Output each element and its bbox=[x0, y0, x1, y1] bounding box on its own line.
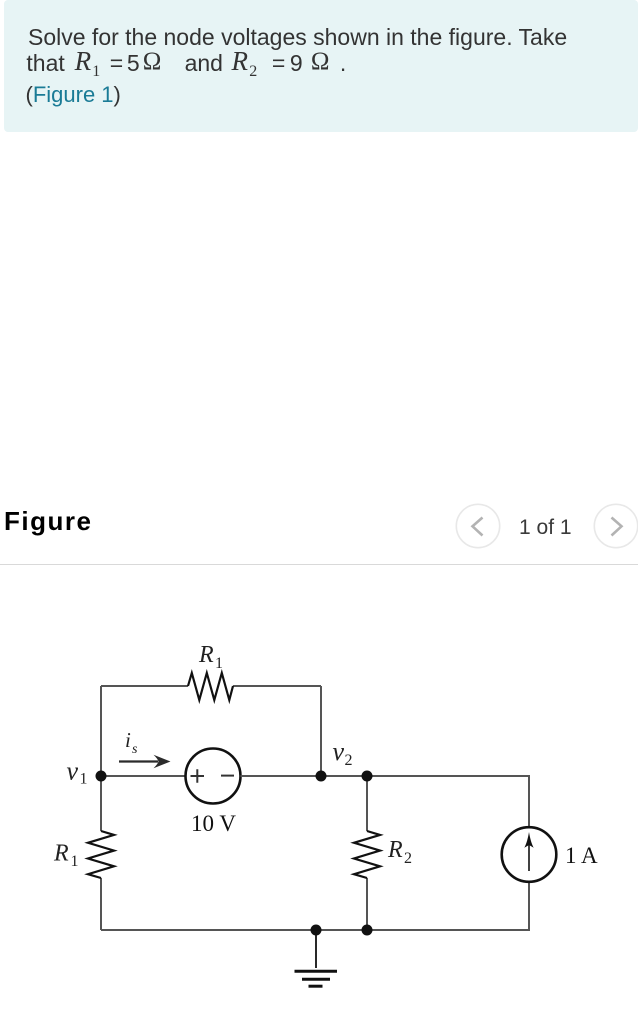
svg-text:10 V: 10 V bbox=[191, 811, 236, 836]
svg-text:2: 2 bbox=[404, 850, 412, 867]
label R1 (left) bbox=[53, 841, 79, 871]
current source 1A bbox=[502, 827, 557, 882]
svg-text:R: R bbox=[198, 642, 214, 668]
svg-text:R: R bbox=[387, 837, 403, 863]
svg-text:i: i bbox=[125, 728, 131, 752]
left branch wires bbox=[100, 776, 102, 930]
bottom wire bbox=[101, 929, 530, 931]
svg-text:1 A: 1 A bbox=[565, 843, 598, 868]
label v1 bbox=[67, 757, 88, 788]
node junction dot bottom middle bbox=[362, 925, 373, 936]
wire v2 to right bbox=[321, 775, 530, 777]
wire v1 to source bbox=[101, 775, 186, 777]
ground bbox=[295, 930, 338, 986]
svg-text:1: 1 bbox=[215, 655, 223, 672]
label R2 bbox=[387, 837, 412, 867]
label v2 bbox=[333, 737, 353, 769]
label R1 (top) bbox=[198, 642, 223, 672]
right branch wires bbox=[528, 776, 530, 930]
middle branch wires bbox=[366, 776, 368, 930]
svg-text:R: R bbox=[53, 841, 69, 867]
node junction dot right of v2 bbox=[362, 771, 373, 782]
node v1 junction dot bbox=[96, 771, 107, 782]
wire top-left loop bbox=[101, 686, 321, 776]
svg-text:s: s bbox=[132, 742, 138, 757]
wire source to v2 bbox=[241, 775, 322, 777]
resistor R2 (vertical) bbox=[354, 831, 380, 878]
label is bbox=[125, 728, 138, 757]
current arrow is bbox=[119, 755, 171, 768]
resistor R1 (top, horizontal) bbox=[188, 673, 233, 700]
svg-text:1: 1 bbox=[80, 771, 88, 788]
svg-text:v: v bbox=[67, 757, 79, 786]
voltage source V1 10V bbox=[186, 749, 241, 804]
node v2 junction dot bbox=[316, 771, 327, 782]
svg-text:1: 1 bbox=[71, 853, 79, 870]
resistor R1 (left, vertical) bbox=[88, 831, 114, 878]
svg-text:v: v bbox=[333, 737, 345, 766]
svg-text:2: 2 bbox=[345, 752, 353, 769]
node junction dot ground bbox=[311, 925, 322, 936]
